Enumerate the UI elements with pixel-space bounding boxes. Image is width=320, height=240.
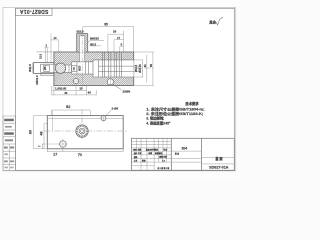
svg-text:4. 表面发黑X45°: 4. 表面发黑X45° (146, 120, 171, 125)
svg-text:95: 95 (104, 23, 108, 27)
svg-text:Ø24.15: Ø24.15 (138, 64, 142, 73)
svg-text:2XØ9: 2XØ9 (123, 89, 131, 93)
svg-text:1. 未注尺寸公差按GB/T1804-m;: 1. 未注尺寸公差按GB/T1804-m; (146, 106, 204, 111)
svg-text:星 架: 星 架 (215, 156, 223, 161)
svg-text:其余: 其余 (208, 19, 216, 24)
svg-text:2-Ø9: 2-Ø9 (112, 107, 119, 111)
svg-text:28: 28 (113, 30, 117, 34)
svg-text:13.5: 13.5 (38, 53, 42, 59)
svg-text:44: 44 (143, 64, 147, 67)
svg-text:46: 46 (40, 131, 44, 135)
svg-text:70: 70 (78, 153, 82, 157)
svg-text:60: 60 (149, 64, 153, 68)
svg-text:60: 60 (29, 130, 33, 134)
svg-text:304: 304 (181, 146, 187, 150)
svg-text:M8X1.5: M8X1.5 (35, 75, 39, 85)
svg-text:17: 17 (117, 36, 121, 40)
svg-text:Ø23: Ø23 (77, 65, 81, 71)
svg-text:20: 20 (79, 86, 83, 90)
svg-text:60: 60 (88, 91, 92, 95)
svg-text:SD827-01A: SD827-01A (19, 8, 48, 14)
svg-text:1:2: 1:2 (162, 160, 165, 162)
svg-text:技术要求: 技术要求 (185, 101, 199, 106)
svg-text:SD827-01A: SD827-01A (209, 165, 229, 169)
svg-text:14: 14 (53, 36, 57, 40)
svg-text:Ø16.5: Ø16.5 (134, 64, 138, 72)
svg-text:1.6X0.05: 1.6X0.05 (55, 87, 67, 91)
svg-text:7: 7 (38, 145, 42, 147)
svg-text:Ø6: Ø6 (43, 66, 47, 70)
svg-text:17: 17 (53, 153, 57, 157)
svg-text:Ø13.5: Ø13.5 (76, 29, 84, 33)
svg-text:Ø21.5: Ø21.5 (28, 64, 32, 72)
svg-text:3. 锐边倒钝;: 3. 锐边倒钝; (146, 115, 164, 120)
svg-text:2. 未注形位公差按GB/T1184-K;: 2. 未注形位公差按GB/T1184-K; (146, 111, 203, 116)
svg-text:40: 40 (64, 91, 68, 95)
